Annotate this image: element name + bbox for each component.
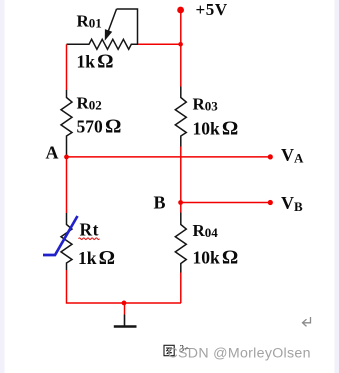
svg-text:570Ω: 570Ω (77, 115, 122, 137)
wire left branch top (red, down to R02) (66, 44, 68, 90)
node ground junction dot (122, 301, 127, 306)
svg-text:VB: VB (281, 193, 303, 214)
spellcheck red squiggle under Rt (79, 238, 100, 240)
terminal VB dot (268, 200, 273, 205)
wire node B to VB terminal (181, 202, 270, 204)
node A dot (64, 155, 69, 160)
wire ground stub (red) (124, 303, 126, 315)
node B dot (178, 200, 183, 205)
wire right branch +5V junction down to R03 (red) (180, 44, 182, 86)
svg-text:R02: R02 (77, 93, 102, 112)
potentiometer R01 (67, 9, 139, 49)
ground (114, 315, 137, 327)
svg-text:CSDN @MorleyOlsen: CSDN @MorleyOlsen (168, 346, 311, 362)
power +5V dot (177, 7, 184, 14)
paragraph return mark (303, 317, 311, 326)
node junction top (R01 wire joins +5V line) (178, 42, 183, 47)
svg-text:10kΩ: 10kΩ (193, 117, 239, 139)
svg-text:R03: R03 (193, 95, 219, 114)
thermistor Rt (61, 213, 72, 270)
right watermark margin bar (335, 0, 339, 373)
svg-text:1kΩ: 1kΩ (78, 247, 115, 269)
svg-text:10kΩ: 10kΩ (193, 246, 239, 268)
left watermark margin bar (0, 0, 5, 373)
wire R03 bottom to node B (red, crosses VA line) (180, 147, 182, 203)
wire +5V stem (180, 12, 182, 44)
wire node A down to Rt (red) (66, 157, 68, 213)
small caption dash (186, 347, 189, 350)
svg-text:R04: R04 (193, 221, 219, 240)
wire node A to VA terminal (67, 156, 271, 158)
wire R04 bottom to bottom rail (red) (180, 273, 182, 304)
thermistor Rt blue diagonal stroke (43, 216, 78, 255)
wire Rt bottom to bottom rail (red) (67, 270, 182, 303)
resistor R03 (175, 87, 186, 147)
svg-text:VA: VA (281, 145, 304, 166)
terminal VA dot (268, 154, 273, 159)
wire node B down to R04 (red) (180, 203, 182, 213)
svg-text:+5V: +5V (196, 0, 228, 19)
resistor R04 (175, 213, 186, 273)
svg-text:Rt: Rt (80, 220, 99, 240)
wire R01 right lead to +5V line (red) (138, 43, 181, 45)
resistor R02 (61, 90, 72, 156)
svg-text:1kΩ: 1kΩ (77, 51, 114, 73)
svg-text:A: A (46, 143, 59, 163)
svg-text:R01: R01 (77, 12, 102, 31)
figure caption glyph 图 (drawn) (164, 345, 174, 355)
svg-text:B: B (154, 193, 166, 213)
